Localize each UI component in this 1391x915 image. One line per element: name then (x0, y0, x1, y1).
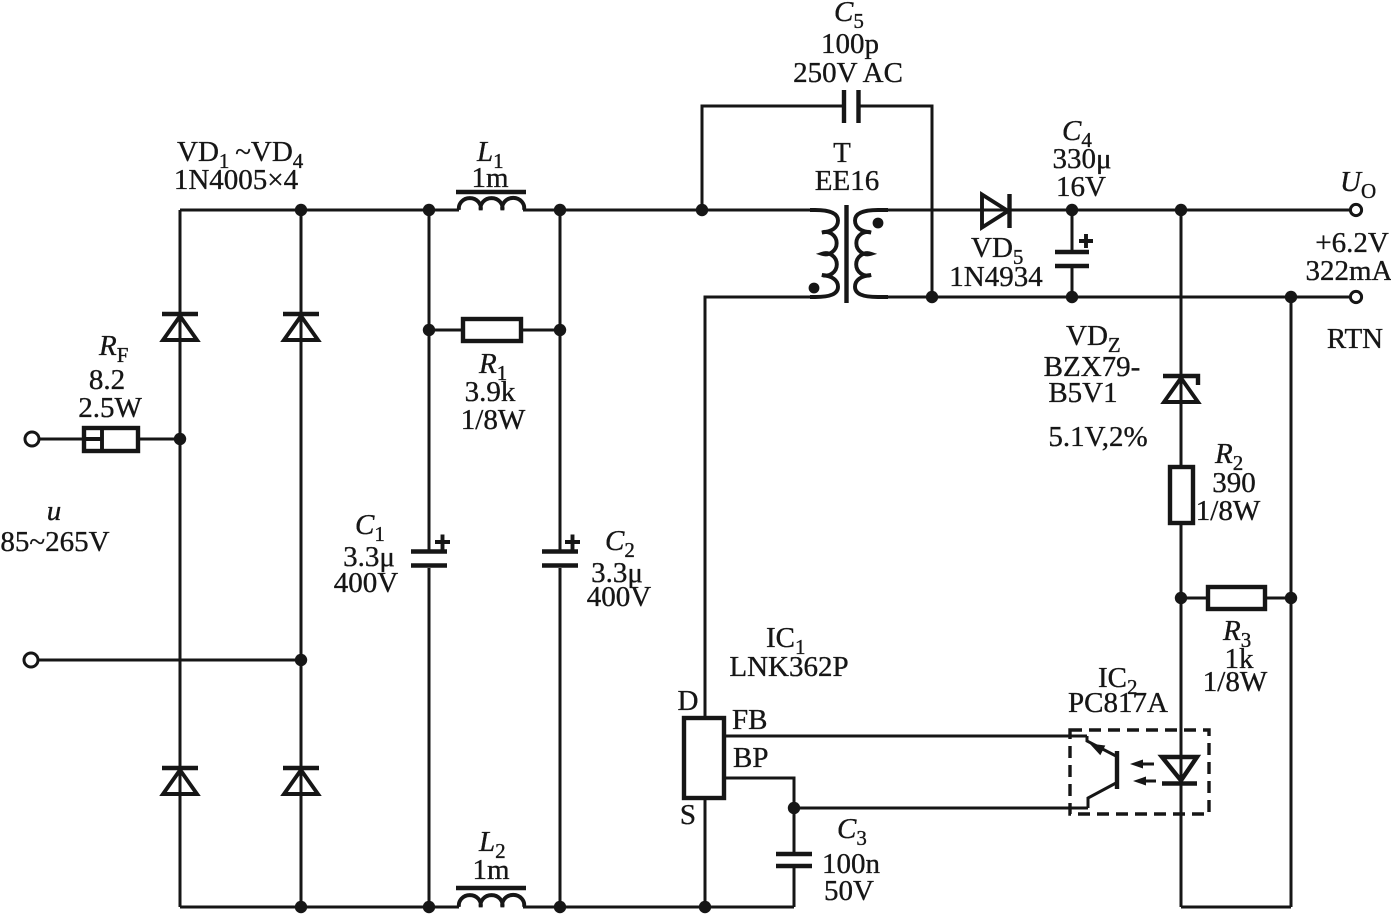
node top bus at C2 (554, 204, 566, 216)
IC1 LNK362P box (684, 718, 724, 798)
input terminal 2 (24, 653, 38, 667)
transformer T core (844, 205, 848, 303)
node R3 right (1285, 592, 1297, 604)
inductor L1 (456, 192, 526, 210)
node RTN branch (1285, 291, 1297, 303)
opto phototransistor arrow (1090, 744, 1106, 756)
svg-text:FB: FB (732, 704, 767, 736)
wire input line 2 (38, 659, 301, 662)
resistor R1 (463, 319, 521, 341)
node RF-bridge (174, 433, 186, 445)
svg-text:EE16: EE16 (815, 165, 879, 197)
wire R1 leads (429, 329, 560, 332)
node R1 right (554, 324, 566, 336)
transformer primary phase dot (809, 283, 820, 294)
wire C2 branch (559, 210, 562, 907)
zener diode VDZ (1163, 376, 1198, 402)
opto light arrow upper (1130, 760, 1154, 769)
wire zener branch upper (1180, 210, 1183, 467)
wire BP node to opto emitter (794, 807, 1088, 810)
wire S pin to bottom bus (704, 798, 707, 907)
resistor R3 (1208, 587, 1265, 609)
wire junction down to opto LED (1180, 598, 1183, 907)
capacitor C4 (1055, 211, 1093, 297)
wire secondary bottom to RTN terminal (886, 296, 1349, 299)
transformer T secondary winding (855, 210, 888, 297)
node input2-bridge (295, 654, 307, 666)
svg-text:LNK362P: LNK362P (729, 651, 848, 683)
wire primary bottom to D pin (705, 297, 816, 718)
IC2 PC817A dashed box (1070, 730, 1209, 814)
wire C5 loop (702, 106, 932, 297)
svg-text:S: S (680, 799, 696, 831)
svg-text:1/8W: 1/8W (1203, 666, 1268, 698)
svg-text:D: D (678, 685, 699, 717)
wire C3 lower stem (793, 867, 796, 907)
svg-text:400V: 400V (587, 581, 652, 613)
resistor R2 (1170, 467, 1193, 523)
svg-text:1m: 1m (471, 162, 509, 194)
svg-text:B5V1: B5V1 (1048, 377, 1117, 409)
node bottom bus at C2 (554, 901, 566, 913)
node bottom bus at VD4 (295, 901, 307, 913)
wire top bus middle segment (523, 209, 817, 212)
resistor RF (fusible) (84, 428, 138, 451)
input terminal 1 (25, 432, 39, 446)
opto LED cathode bar (1162, 781, 1197, 785)
wire left bridge vertical (179, 210, 182, 907)
node R1 left (423, 324, 435, 336)
wire R2 to junction (1180, 523, 1183, 598)
capacitor C1 (411, 535, 450, 566)
svg-text:100p: 100p (821, 28, 879, 60)
svg-text:BP: BP (733, 742, 768, 774)
wire input line 1 (39, 438, 180, 441)
svg-text:50V: 50V (824, 875, 874, 907)
node top bus at C5 (696, 204, 708, 216)
svg-text:1/8W: 1/8W (461, 404, 526, 436)
node C5 secondary bottom (926, 291, 938, 303)
diode VD1 (162, 314, 198, 340)
wire BP line (724, 778, 794, 853)
svg-text:1N4005×4: 1N4005×4 (174, 164, 299, 196)
svg-text:250V AC: 250V AC (793, 57, 903, 89)
node top bus at C1 (423, 204, 435, 216)
svg-text:85~265V: 85~265V (0, 526, 109, 558)
svg-text:1m: 1m (472, 854, 510, 886)
wire FB line (724, 735, 1087, 738)
output terminal UO (1350, 204, 1361, 215)
svg-text:5.1V,2%: 5.1V,2% (1048, 421, 1147, 453)
capacitor C5 (844, 90, 859, 123)
node bottom bus at C1 (423, 901, 435, 913)
node C4 top (1066, 204, 1078, 216)
node BP-C3 (788, 802, 800, 814)
svg-text:400V: 400V (334, 567, 399, 599)
opto light arrow lower (1133, 777, 1156, 786)
node zener branch top (1175, 204, 1187, 216)
opto LED triangle (1162, 757, 1197, 781)
wire C1 branch (428, 210, 431, 907)
capacitor C2 (542, 535, 580, 566)
wire bottom right return (1181, 906, 1291, 909)
capacitor C3 (776, 854, 812, 866)
svg-text:1N4934: 1N4934 (949, 261, 1043, 293)
diode VD3 (162, 768, 198, 794)
transformer secondary phase dot (873, 218, 884, 229)
svg-text:PC817A: PC817A (1068, 687, 1168, 719)
opto phototransistor leads (1087, 736, 1116, 808)
node R2-R3-LED junction (1175, 592, 1187, 604)
diode VD5 (982, 194, 1010, 228)
inductor L2 (456, 888, 526, 907)
node top bus at VD2 (295, 204, 307, 216)
wire top bus left segment (180, 209, 459, 212)
wire second bridge vertical (300, 210, 303, 907)
wire R3 leads (1181, 597, 1291, 600)
diode VD4 (283, 768, 319, 794)
wire secondary top to VD5 (886, 209, 1349, 212)
node bottom bus at S pin (699, 901, 711, 913)
svg-text:RTN: RTN (1327, 323, 1383, 355)
svg-text:16V: 16V (1056, 171, 1106, 203)
svg-text:1/8W: 1/8W (1196, 495, 1261, 527)
node C4 bottom (1066, 291, 1078, 303)
svg-text:322mA: 322mA (1306, 255, 1391, 287)
wire bottom bus (180, 906, 794, 909)
svg-text:u: u (47, 495, 62, 527)
svg-text:2.5W: 2.5W (78, 392, 142, 424)
diode VD2 (283, 314, 319, 340)
opto phototransistor base bar (1115, 751, 1119, 789)
transformer T primary winding (810, 210, 838, 297)
wire RTN vertical (1290, 297, 1293, 907)
output terminal RTN (1350, 291, 1361, 302)
